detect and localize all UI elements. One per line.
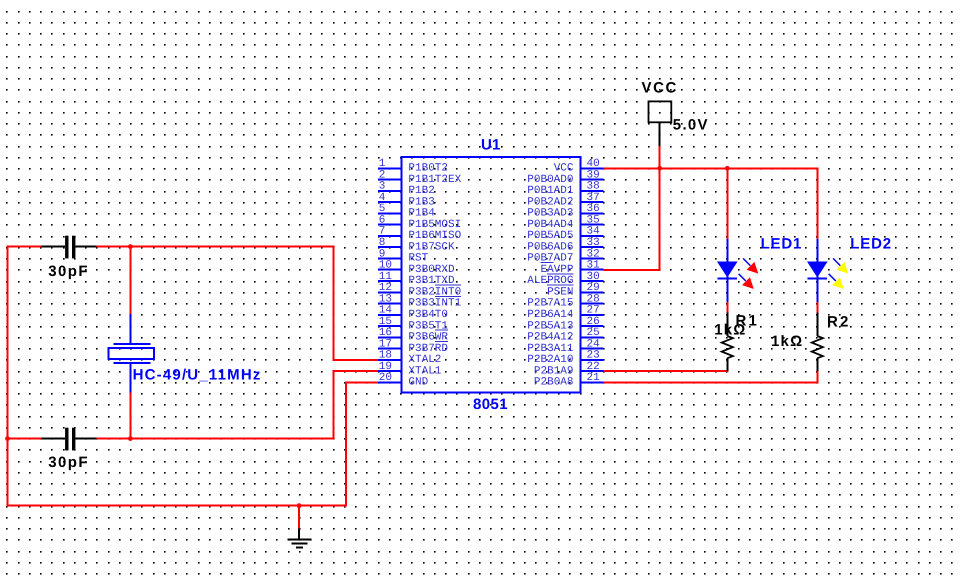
svg-text:40: 40 (587, 158, 600, 170)
svg-text:GND: GND (408, 377, 428, 389)
svg-text:36: 36 (587, 203, 600, 215)
svg-text:LED1: LED1 (761, 235, 803, 252)
svg-text:6: 6 (379, 215, 386, 227)
svg-text:XTAL1: XTAL1 (408, 365, 441, 377)
svg-text:VCC: VCC (642, 79, 678, 96)
svg-text:21: 21 (587, 372, 601, 384)
svg-text:P3B0RXD: P3B0RXD (408, 264, 455, 276)
svg-text:20: 20 (379, 372, 392, 384)
svg-text:38: 38 (587, 181, 600, 193)
svg-text:30pF: 30pF (48, 263, 89, 280)
svg-text:35: 35 (587, 215, 600, 227)
svg-text:30pF: 30pF (48, 454, 89, 471)
svg-text:16: 16 (379, 327, 392, 339)
svg-text:P0B5AD5: P0B5AD5 (527, 230, 573, 242)
svg-text:P0B4AD4: P0B4AD4 (527, 219, 574, 231)
svg-text:27: 27 (587, 305, 600, 317)
svg-text:32: 32 (587, 248, 600, 260)
svg-text:37: 37 (587, 192, 600, 204)
svg-text:12: 12 (379, 282, 392, 294)
svg-text:10: 10 (379, 260, 392, 272)
svg-text:P1B7SCK: P1B7SCK (408, 241, 455, 253)
svg-text:31: 31 (587, 260, 601, 272)
svg-text:5.0V: 5.0V (673, 116, 709, 133)
svg-text:30: 30 (587, 271, 600, 283)
svg-text:19: 19 (379, 361, 392, 373)
svg-text:P1B3: P1B3 (408, 196, 434, 208)
svg-text:9: 9 (379, 248, 386, 260)
svg-text:33: 33 (587, 237, 600, 249)
svg-text:P2B4A12: P2B4A12 (527, 332, 573, 344)
svg-text:U1: U1 (481, 136, 501, 153)
svg-text:LED2: LED2 (850, 235, 892, 252)
svg-text:1kΩ: 1kΩ (714, 322, 746, 339)
svg-text:7: 7 (379, 226, 386, 238)
svg-text:P3B4T0: P3B4T0 (408, 309, 448, 321)
svg-text:P1B1T2EX: P1B1T2EX (408, 174, 461, 186)
svg-text:18: 18 (379, 350, 392, 362)
svg-text:P1B2: P1B2 (408, 185, 434, 197)
svg-text:P1B4: P1B4 (408, 208, 435, 220)
svg-text:P2B5A13: P2B5A13 (527, 320, 573, 332)
svg-text:34: 34 (587, 226, 601, 238)
svg-text:24: 24 (587, 338, 601, 350)
svg-text:P1B0T2: P1B0T2 (408, 163, 448, 175)
svg-text:14: 14 (379, 305, 393, 317)
svg-text:R2: R2 (827, 313, 851, 330)
svg-text:P1B6MISO: P1B6MISO (408, 230, 461, 242)
svg-text:8: 8 (379, 237, 386, 249)
svg-text:8051: 8051 (473, 396, 508, 413)
svg-text:PSEN: PSEN (547, 287, 573, 299)
svg-text:P2B1A9: P2B1A9 (534, 365, 574, 377)
svg-text:17: 17 (379, 338, 392, 350)
svg-text:P2B7A15: P2B7A15 (527, 298, 573, 310)
svg-text:22: 22 (587, 361, 600, 373)
svg-text:29: 29 (587, 282, 600, 294)
svg-text:P0B2AD2: P0B2AD2 (527, 196, 573, 208)
svg-text:1kΩ: 1kΩ (771, 333, 803, 350)
svg-text:39: 39 (587, 169, 600, 181)
svg-text:28: 28 (587, 293, 600, 305)
svg-text:P0B0AD0: P0B0AD0 (527, 174, 573, 186)
svg-text:P3B7RD: P3B7RD (408, 343, 448, 355)
svg-text:11: 11 (379, 271, 393, 283)
svg-text:13: 13 (379, 293, 392, 305)
svg-text:P2B6A14: P2B6A14 (527, 309, 574, 321)
svg-text:P2B0A8: P2B0A8 (534, 377, 574, 389)
svg-text:XTAL2: XTAL2 (408, 354, 441, 366)
svg-text:P0B6AD6: P0B6AD6 (527, 241, 573, 253)
svg-text:P0B1AD1: P0B1AD1 (527, 185, 574, 197)
svg-text:P1B5MOSI: P1B5MOSI (408, 219, 461, 231)
svg-text:VCC: VCC (554, 163, 574, 175)
svg-text:P2B3A11: P2B3A11 (527, 343, 574, 355)
svg-text:3: 3 (379, 181, 386, 193)
svg-text:P3B3INT1: P3B3INT1 (408, 298, 461, 310)
svg-text:1: 1 (379, 158, 386, 170)
svg-text:5: 5 (379, 203, 386, 215)
svg-text:2: 2 (379, 169, 386, 181)
svg-text:P0B3AD3: P0B3AD3 (527, 208, 573, 220)
svg-text:23: 23 (587, 350, 600, 362)
svg-text:HC-49/U_11MHz: HC-49/U_11MHz (133, 367, 262, 384)
svg-text:25: 25 (587, 327, 600, 339)
svg-text:RST: RST (408, 253, 428, 265)
svg-text:P2B2A10: P2B2A10 (527, 354, 573, 366)
svg-text:15: 15 (379, 316, 392, 328)
svg-text:4: 4 (379, 192, 386, 204)
svg-text:26: 26 (587, 316, 600, 328)
